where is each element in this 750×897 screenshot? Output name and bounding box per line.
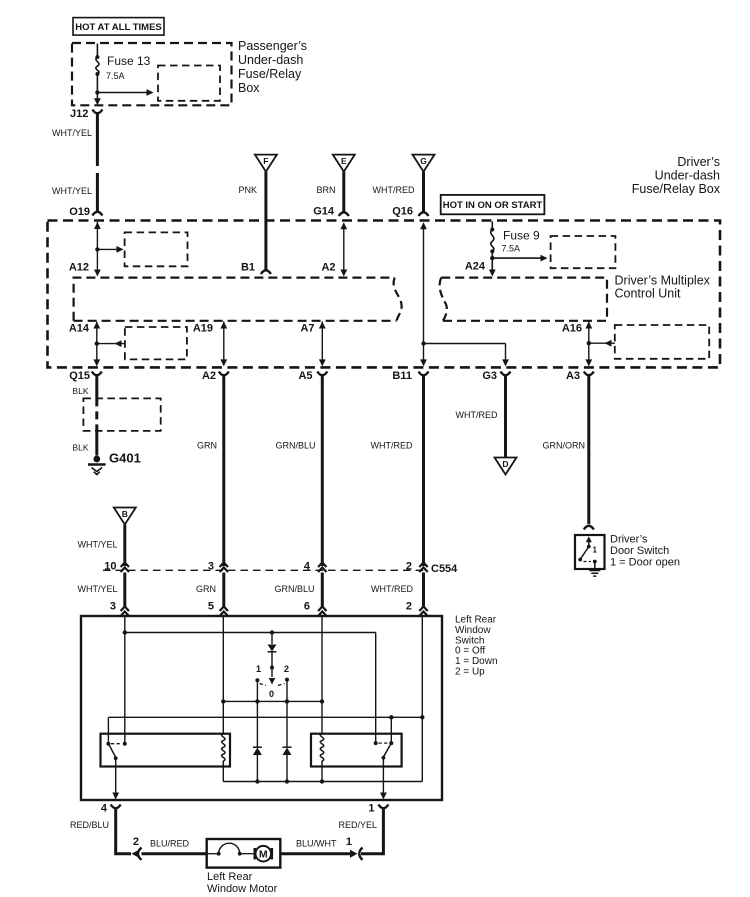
connector triangle B <box>114 508 136 525</box>
wire G3 down <box>505 344 507 362</box>
svg-text:A19: A19 <box>193 323 213 335</box>
wire G3 down WHT/RED <box>504 376 507 458</box>
svg-text:A2: A2 <box>321 262 335 274</box>
arrow down at pin 1 <box>380 793 387 800</box>
junction dot mid bus pos1 <box>255 699 259 703</box>
connector triangle E <box>333 155 355 172</box>
svg-text:A12: A12 <box>69 262 89 274</box>
bottom bus wire <box>223 781 422 783</box>
svg-text:Fuse 9: Fuse 9 <box>503 229 540 243</box>
label box HOT IN ON OR START <box>441 195 545 214</box>
chevrons switch pin 2 <box>419 607 427 617</box>
svg-text:BLK: BLK <box>72 443 88 453</box>
right relay contact dashes <box>379 742 389 744</box>
wire right pivot riser <box>390 717 392 743</box>
fuse F13 element <box>96 57 99 74</box>
svg-text:0: 0 <box>269 689 274 699</box>
wire door switch to ground <box>594 562 596 570</box>
relay DOWN box (left) <box>101 734 231 767</box>
Driver's Multiplex Control Unit box piece 2 (dashed) <box>441 278 607 321</box>
junction dot fuse13 branch <box>95 90 99 94</box>
svg-text:HOT IN ON OR START: HOT IN ON OR START <box>443 200 543 211</box>
wire BLK through connector box (dashed wire) <box>95 398 98 431</box>
svg-text:GRN/BLU: GRN/BLU <box>274 584 314 594</box>
arrow up at A16 exit <box>585 322 592 329</box>
svg-text:Fuse 13: Fuse 13 <box>107 54 151 68</box>
connector Q16 cup <box>419 212 429 216</box>
wire to motor BLU/RED <box>142 852 207 855</box>
chevrons switch pin 3 <box>121 607 129 617</box>
connector Q15 cup <box>92 372 102 376</box>
svg-text:D: D <box>502 459 508 469</box>
wire GRN pin3 to pin5 <box>222 573 225 609</box>
wire up-contact riser (right) <box>375 633 377 744</box>
arrow up inside door switch <box>586 536 592 542</box>
arrow branch to relay box1 <box>97 248 118 250</box>
svg-text:PNK: PNK <box>238 185 257 195</box>
svg-text:3: 3 <box>110 601 116 613</box>
arrow branch to relay (driver box) <box>492 257 542 259</box>
svg-text:1: 1 <box>593 546 598 555</box>
pivot bus wire <box>108 716 422 718</box>
wire BLK to ground <box>95 431 98 456</box>
arrow down at A2 exit <box>220 359 227 366</box>
wire pin2 inside switch <box>421 616 423 717</box>
junction dot bottom bus coil right <box>320 779 324 783</box>
relay UP box (right) <box>311 734 402 767</box>
connector cup at door switch <box>584 526 594 530</box>
relay box2 (dashed) <box>551 236 616 268</box>
wire right output to pin 1 <box>382 758 384 795</box>
svg-text:C554: C554 <box>431 563 458 575</box>
connector chevrons (left, pin 2) <box>132 850 140 858</box>
arrow branch to relay (passenger box) <box>97 92 148 94</box>
connector O19 cup <box>92 212 102 216</box>
svg-text:A2: A2 <box>202 370 216 382</box>
arrow down at G3 exit <box>502 359 509 366</box>
connector chevrons (right, pin 1) <box>350 850 358 858</box>
arrow-left branch from relay box3 <box>97 343 125 345</box>
connector C554 dashed line <box>103 569 428 571</box>
svg-text:WHT/YEL: WHT/YEL <box>52 128 92 138</box>
svg-text:BLU/WHT: BLU/WHT <box>296 839 337 849</box>
connector G14 cup <box>339 212 349 216</box>
connector triangle F <box>255 155 277 172</box>
wire Q16 down to B11 node <box>423 229 425 344</box>
connector triangle D <box>495 458 517 475</box>
svg-text:BLK: BLK <box>72 386 88 396</box>
arrow down at A24 into control unit <box>489 270 496 277</box>
wire Q15 down BLK <box>95 376 98 399</box>
wire B11 down WHT/RED <box>422 376 425 567</box>
wavy left edge piece 2 <box>440 278 447 321</box>
arrow up inside box at O19 <box>94 222 101 229</box>
svg-text:F: F <box>263 156 268 166</box>
wire GRN/BLU pin4 to pin6 <box>321 573 324 609</box>
junction dot A14 branch <box>95 341 99 345</box>
wire A3 down GRN/ORN <box>587 376 590 525</box>
wire O19 to A12 (thin) <box>96 222 98 270</box>
svg-text:WHT/RED: WHT/RED <box>373 185 415 195</box>
left relay blade <box>108 744 115 758</box>
chevrons pin 10 <box>121 563 129 573</box>
wire A5 down GRN/BLU <box>321 376 324 567</box>
wire pin6 inside switch <box>321 616 323 734</box>
contact dot position 1 <box>255 678 259 682</box>
Left Rear Window Switch box <box>81 616 442 800</box>
svg-text:HOT AT ALL TIMES: HOT AT ALL TIMES <box>75 22 162 33</box>
svg-text:1: 1 <box>256 664 261 674</box>
arrow down at J12 exit <box>94 98 101 105</box>
wire pin3 inside switch <box>124 616 126 744</box>
wire right coil to bottom bus <box>321 767 323 782</box>
wire fuse13 to junction <box>96 74 98 101</box>
svg-text:G: G <box>420 156 427 166</box>
wire A16 down to A3 <box>588 322 590 362</box>
arrow up at A19 exit <box>220 322 227 329</box>
junction dot right pivot riser <box>389 715 393 719</box>
junction dot A16 branch <box>587 341 591 345</box>
connector J12 cup <box>92 110 102 114</box>
wire RED/BLU corner to motor connector <box>114 852 131 855</box>
arrow-left branch from relay box4 <box>589 342 615 344</box>
svg-text:Q16: Q16 <box>392 206 413 218</box>
svg-text:2: 2 <box>406 601 412 613</box>
svg-text:4: 4 <box>101 803 108 815</box>
arrow up inside box at Q16 <box>420 222 427 229</box>
svg-text:2: 2 <box>406 561 412 573</box>
diode D3 <box>286 701 288 746</box>
svg-text:2: 2 <box>133 836 139 848</box>
wire motor to right connector BLU/WHT <box>280 852 352 855</box>
contact dot position 2 <box>285 678 289 682</box>
svg-text:GRN/BLU: GRN/BLU <box>275 441 315 451</box>
ground G401 symbol <box>93 456 100 463</box>
junction dot B11/G3 branch <box>421 341 425 345</box>
motor internals <box>207 853 219 855</box>
svg-text:B1: B1 <box>241 262 255 274</box>
wire A14 down to Q15 <box>96 322 98 362</box>
arrow down at A5 exit <box>319 359 326 366</box>
right relay contact dot <box>374 741 378 745</box>
wire A19 down to A2 <box>223 322 225 362</box>
svg-text:M: M <box>259 849 268 861</box>
wire left output to pin 4 <box>115 758 117 795</box>
wire top edge to fuse 9 <box>491 222 493 230</box>
wire WHT/YEL (lower segment) <box>96 173 99 213</box>
svg-text:J12: J12 <box>70 108 88 120</box>
wire position1 down <box>256 680 258 701</box>
chevrons switch pin 6 <box>318 607 326 617</box>
arrow down at A12 into control unit <box>94 270 101 277</box>
junction dot top bus <box>123 630 127 634</box>
right relay pivot dot <box>389 741 393 745</box>
rocker wiper arrow (position 0) <box>271 668 273 678</box>
left relay contact dot <box>123 742 127 746</box>
right relay coil <box>320 734 323 761</box>
svg-text:G401: G401 <box>109 451 141 466</box>
wire F down PNK <box>264 172 267 271</box>
svg-text:7.5A: 7.5A <box>502 244 521 254</box>
connector pin 4 cup <box>111 805 121 809</box>
svg-text:WHT/YEL: WHT/YEL <box>52 186 92 196</box>
junction dot mid bus pin5 <box>221 699 225 703</box>
wire bottom bus riser to pin2 node <box>421 717 423 781</box>
wire J12 down WHT/YEL (upper) <box>96 114 99 167</box>
svg-text:E: E <box>341 156 347 166</box>
diode D1 (down) <box>268 645 277 652</box>
relay box1 (dashed) <box>125 232 188 266</box>
wire top bus to diode <box>271 633 273 645</box>
wire A2 down GRN <box>222 376 225 567</box>
arrow down at Q15 exit <box>93 359 100 366</box>
Passenger's Under-dash Fuse/Relay Box (dashed) <box>72 43 232 105</box>
Driver's Door Switch box <box>575 535 605 569</box>
svg-text:B11: B11 <box>392 370 412 382</box>
wire from HOT AT ALL TIMES into fuse box <box>96 44 98 58</box>
svg-text:A7: A7 <box>300 323 314 335</box>
connector A2 cup (bottom) <box>219 372 229 376</box>
left relay pivot dot <box>106 742 110 746</box>
arrow down at B11 exit <box>420 359 427 366</box>
arrow up inside box at G14 <box>340 222 347 229</box>
wire pin10 to pin3 <box>123 573 126 609</box>
wire A7 down to A5 <box>321 322 323 362</box>
wire fuse9 to junction <box>491 251 493 270</box>
svg-text:A24: A24 <box>465 261 486 273</box>
connector triangle G <box>413 155 435 172</box>
svg-text:5: 5 <box>208 601 214 613</box>
arrow down at A2 into control unit <box>340 270 347 277</box>
Driver's Multiplex Control Unit box piece 1 (dashed) <box>74 278 395 321</box>
wire left pivot riser <box>107 717 109 743</box>
svg-text:WHT/YEL: WHT/YEL <box>77 584 117 594</box>
ground symbol (door switch) <box>589 571 600 577</box>
wire left coil to bottom bus <box>222 767 224 782</box>
connector G3 cup <box>501 372 511 376</box>
chevrons pin 2 (C554) <box>419 563 427 573</box>
junction dot mid bus pin6 <box>320 699 324 703</box>
svg-text:G14: G14 <box>313 206 335 218</box>
left relay coil <box>222 734 225 761</box>
connector A5 cup <box>317 372 327 376</box>
relay box3 (dashed) <box>125 327 187 359</box>
arrow up at A14 exit <box>93 322 100 329</box>
fuse F9 element <box>491 230 494 252</box>
connector pin 1 cup <box>378 805 388 809</box>
wire RED/YEL corner <box>361 852 383 855</box>
arrow down at pin 4 <box>112 793 119 800</box>
svg-text:Q15: Q15 <box>69 370 90 382</box>
wire B down WHT/YEL <box>123 525 126 567</box>
wire WHT/RED pin2 to pin2 <box>422 573 425 609</box>
junction dot mid bus pos2 <box>285 699 289 703</box>
svg-text:GRN: GRN <box>196 584 216 594</box>
svg-text:4: 4 <box>304 561 311 573</box>
diode D2 <box>256 701 258 746</box>
wire E down BRN <box>342 172 345 213</box>
chevrons pin 3 (C554) <box>220 563 228 573</box>
svg-text:2: 2 <box>284 664 289 674</box>
wire branch to G3 <box>424 343 506 345</box>
label box HOT AT ALL TIMES <box>73 18 164 35</box>
relay box (dashed) passenger <box>158 66 220 101</box>
svg-text:WHT/YEL: WHT/YEL <box>77 540 117 550</box>
chevrons switch pin 5 <box>220 607 228 617</box>
rocker dashes <box>260 684 285 686</box>
svg-text:GRN/ORN: GRN/ORN <box>543 441 586 451</box>
Driver's under-dash fuse/relay box (outer dashed) <box>48 221 721 368</box>
svg-text:A3: A3 <box>566 370 580 382</box>
junction dot diode branch <box>270 630 274 634</box>
mid bus wire <box>223 700 322 702</box>
svg-text:BLU/RED: BLU/RED <box>150 839 190 849</box>
right relay output dot <box>382 756 386 760</box>
wire diode to rocker pivot <box>271 652 273 668</box>
wire position2 down <box>286 680 288 702</box>
junction dot fuse9 branch <box>490 256 494 260</box>
svg-text:1: 1 <box>346 836 352 848</box>
rocker pivot dot <box>270 666 274 670</box>
chevrons pin 4 (C554) <box>318 563 326 573</box>
svg-text:1: 1 <box>368 803 374 815</box>
svg-text:B: B <box>122 509 128 519</box>
left relay contact dashes <box>111 743 121 745</box>
junction dot pin2 / pivot bus <box>420 715 424 719</box>
svg-text:A16: A16 <box>562 323 582 335</box>
wavy right edge piece 1 <box>394 278 402 321</box>
connector B1 cup <box>261 270 271 274</box>
wire RED/BLU down <box>114 809 117 854</box>
svg-text:A5: A5 <box>298 370 312 382</box>
svg-text:10: 10 <box>104 561 116 573</box>
arrow down at A3 exit <box>585 359 592 366</box>
svg-text:3: 3 <box>208 561 214 573</box>
svg-text:G3: G3 <box>482 370 497 382</box>
relay box4 (dashed) <box>615 325 709 359</box>
junction dot bottom bus d3 <box>285 779 289 783</box>
wire pin5 inside switch <box>222 616 224 734</box>
svg-text:WHT/RED: WHT/RED <box>456 410 498 420</box>
svg-text:A14: A14 <box>69 323 90 335</box>
right relay blade <box>383 743 391 757</box>
svg-text:WHT/RED: WHT/RED <box>371 441 413 451</box>
connector B11 cup <box>419 372 429 376</box>
Left Rear Window Motor box <box>207 839 281 868</box>
svg-text:GRN: GRN <box>197 441 217 451</box>
svg-text:6: 6 <box>304 601 310 613</box>
svg-text:RED/YEL: RED/YEL <box>338 820 377 830</box>
svg-text:WHT/RED: WHT/RED <box>371 584 413 594</box>
door switch internals <box>588 542 590 547</box>
svg-text:BRN: BRN <box>316 185 335 195</box>
arrow up at A7 exit <box>319 322 326 329</box>
left relay output dot <box>114 756 118 760</box>
connector A3 cup <box>584 372 594 376</box>
wire G down WHT/RED <box>422 172 425 213</box>
svg-text:O19: O19 <box>69 206 90 218</box>
top bus wire <box>125 632 376 634</box>
ground connector box (dashed) <box>83 398 160 431</box>
wire B11 down to exit <box>423 344 425 362</box>
svg-text:7.5A: 7.5A <box>106 71 125 81</box>
svg-text:RED/BLU: RED/BLU <box>70 820 109 830</box>
wire G14 to A2 (thin) <box>343 229 345 271</box>
junction dot A12 branch <box>95 247 99 251</box>
motor M circle <box>254 848 257 859</box>
junction dot bottom bus d2 <box>255 779 259 783</box>
